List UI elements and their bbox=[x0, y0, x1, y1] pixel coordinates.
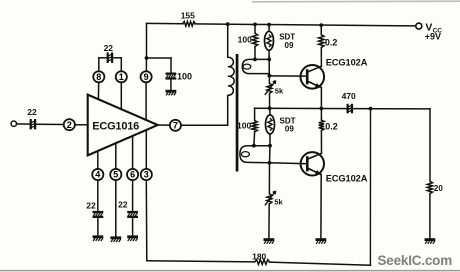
node hairpin top left upper bbox=[253, 58, 257, 62]
capacitor 470 bbox=[342, 91, 356, 113]
ground pin 6 bbox=[127, 237, 138, 241]
svg-text:SeekIC.com: SeekIC.com bbox=[378, 253, 453, 268]
pin 2 bbox=[64, 119, 75, 130]
wire output column bbox=[369, 109, 371, 266]
svg-text:180: 180 bbox=[252, 251, 266, 261]
transformer feedback winding lower bbox=[240, 146, 270, 163]
wire sdt col down lower bbox=[269, 146, 272, 163]
svg-text:155: 155 bbox=[181, 10, 195, 20]
wire pin 1 to amp bbox=[120, 82, 122, 109]
node primary top bbox=[226, 22, 230, 26]
node base junction lower bbox=[268, 161, 272, 165]
resistor 100 upper bbox=[238, 24, 258, 59]
wire C2 to pin 1 bbox=[114, 58, 121, 72]
pin 1 bbox=[116, 71, 127, 82]
bottom rail left bbox=[147, 261, 255, 262]
svg-text:ECG102A: ECG102A bbox=[326, 173, 368, 183]
ground pin 4 bbox=[93, 237, 104, 241]
bottom rail right bbox=[270, 262, 371, 265]
capacitor 22 input bbox=[27, 107, 37, 129]
node rail output junction bbox=[369, 107, 373, 111]
SDT 09 lower bbox=[266, 108, 296, 145]
svg-text:22: 22 bbox=[86, 200, 96, 210]
ground pin 5 bbox=[110, 238, 121, 242]
svg-text:7: 7 bbox=[173, 120, 178, 130]
op-amp U1 ECG1016 bbox=[88, 95, 158, 156]
emitter rail bbox=[255, 107, 430, 110]
pin 6 bbox=[127, 169, 138, 180]
ground pin 9 bypass bbox=[166, 91, 177, 95]
svg-text:+9V: +9V bbox=[425, 31, 441, 41]
svg-text:5: 5 bbox=[113, 170, 118, 180]
wire pot to ground lower bbox=[268, 204, 270, 238]
svg-text:5k: 5k bbox=[275, 87, 284, 96]
pin 5 bbox=[110, 169, 121, 180]
wire pin 3 to amp bbox=[145, 130, 147, 169]
potentiometer 5k lower bbox=[265, 191, 284, 207]
svg-text:20: 20 bbox=[434, 184, 443, 193]
wire C1 to pin 2 bbox=[36, 123, 64, 125]
resistor 180 bbox=[252, 251, 269, 264]
node rail R100a bbox=[253, 23, 257, 27]
svg-text:3: 3 bbox=[144, 170, 149, 180]
wire rail left stub bbox=[254, 108, 256, 120]
transformer feedback winding upper bbox=[242, 59, 269, 73]
node hairpin top right lower bbox=[268, 144, 272, 148]
capacitor 22 pin 6 bbox=[118, 199, 138, 218]
node base junction upper bbox=[268, 74, 272, 78]
resistor 0.2 lower bbox=[319, 109, 338, 154]
wire sdt col down upper bbox=[268, 59, 270, 75]
svg-text:22: 22 bbox=[118, 199, 128, 209]
svg-text:8: 8 bbox=[96, 72, 101, 82]
wire amp output to pin 7 bbox=[158, 124, 170, 126]
scan artifact top edge bbox=[252, 0, 460, 3]
wire pin 6 down bbox=[132, 180, 134, 211]
wire pin 6 to amp bbox=[132, 136, 134, 169]
ground pot lower bbox=[264, 240, 275, 244]
wire C3 to ground bbox=[170, 80, 172, 90]
svg-text:0.2: 0.2 bbox=[325, 37, 338, 47]
svg-text:09: 09 bbox=[285, 124, 294, 133]
wire pin 9 to amp bbox=[145, 82, 147, 120]
node emitter rail Q1 bbox=[320, 107, 324, 111]
potentiometer 5k upper bbox=[265, 81, 284, 96]
resistor 0.2 upper bbox=[319, 25, 338, 66]
svg-text:0.2: 0.2 bbox=[325, 121, 338, 131]
pin 9 bbox=[141, 71, 152, 82]
svg-text:6: 6 bbox=[130, 170, 135, 180]
wire primary to pin 7 bbox=[181, 95, 228, 125]
transformer core bbox=[236, 54, 239, 172]
wire base lower bbox=[270, 162, 308, 165]
wire input to C1 bbox=[17, 123, 31, 125]
wire pin 5 to ground bbox=[115, 180, 117, 236]
resistor 20 bbox=[427, 181, 443, 238]
node pot top rail bbox=[268, 106, 272, 110]
node hairpin top right upper bbox=[267, 58, 271, 62]
transistor Q2 ECG102A bbox=[301, 152, 368, 183]
svg-text:ECG102A: ECG102A bbox=[326, 57, 368, 67]
pin 3 bbox=[141, 169, 152, 180]
ground resistor 20 bbox=[425, 240, 436, 244]
wire rail to primary bbox=[227, 24, 229, 57]
wire emitter lower to ground bbox=[320, 174, 322, 238]
Vcc rail bbox=[147, 23, 416, 26]
pin 7 bbox=[170, 120, 181, 131]
wire pin 9 up to rail bbox=[145, 23, 147, 71]
wire pin 3 down bbox=[145, 180, 148, 261]
wire pin4 cap to ground bbox=[97, 218, 99, 235]
svg-text:100: 100 bbox=[238, 34, 252, 44]
wire rail right turn bbox=[429, 109, 431, 181]
capacitor 22 pin 4 bbox=[86, 200, 103, 218]
wire pin 2 to amp bbox=[75, 124, 88, 126]
wire emitter upper bbox=[320, 87, 322, 108]
svg-text:100: 100 bbox=[237, 120, 251, 130]
capacitor 100 bypass bbox=[166, 72, 193, 82]
transistor Q1 ECG102A bbox=[301, 57, 368, 88]
svg-text:22: 22 bbox=[27, 107, 37, 117]
SDT 09 upper bbox=[265, 25, 296, 60]
pin 4 bbox=[92, 169, 103, 180]
wire base upper bbox=[269, 75, 307, 77]
wire pot to emitter rail upper bbox=[269, 93, 271, 108]
wire pin 4 to amp bbox=[97, 151, 99, 169]
wire junction to C3 bbox=[147, 58, 172, 73]
capacitor 22 pins 8-1 bbox=[104, 43, 114, 63]
transformer primary winding bbox=[228, 57, 234, 95]
svg-text:470: 470 bbox=[342, 91, 356, 101]
svg-text:ECG1016: ECG1016 bbox=[92, 121, 139, 133]
scan artifact bottom edge bbox=[0, 270, 460, 272]
svg-text:2: 2 bbox=[67, 120, 72, 130]
svg-text:100: 100 bbox=[177, 72, 192, 82]
svg-text:9: 9 bbox=[144, 72, 149, 82]
svg-text:09: 09 bbox=[285, 41, 294, 50]
node rail R02a bbox=[319, 23, 323, 27]
svg-text:22: 22 bbox=[104, 43, 114, 53]
svg-text:4: 4 bbox=[95, 170, 100, 180]
wire pin6 cap to ground bbox=[132, 218, 134, 235]
svg-text:5k: 5k bbox=[274, 198, 283, 207]
node pin9 bypass junction bbox=[145, 56, 149, 60]
resistor 100 lower bbox=[237, 120, 257, 145]
wire pin 8 to C2 bbox=[99, 57, 106, 59]
watermark bbox=[378, 253, 453, 268]
wire junction to pot lower bbox=[268, 163, 270, 194]
Vcc terminal bbox=[416, 22, 442, 42]
wire pin 8 to amp bbox=[97, 82, 99, 99]
ground Q2 emitter bbox=[316, 240, 327, 244]
wire pin 5 to amp bbox=[115, 143, 117, 169]
node rail SDT-a bbox=[267, 23, 271, 27]
input terminal bbox=[11, 121, 16, 126]
node hairpin top left lower bbox=[252, 144, 256, 148]
resistor 155 bbox=[181, 10, 196, 26]
wire pin 4 down bbox=[97, 180, 99, 211]
svg-text:1: 1 bbox=[119, 72, 124, 82]
wire junction to pot upper bbox=[268, 76, 270, 84]
wire pin 8 up bbox=[98, 58, 100, 72]
pin 8 bbox=[93, 71, 104, 82]
